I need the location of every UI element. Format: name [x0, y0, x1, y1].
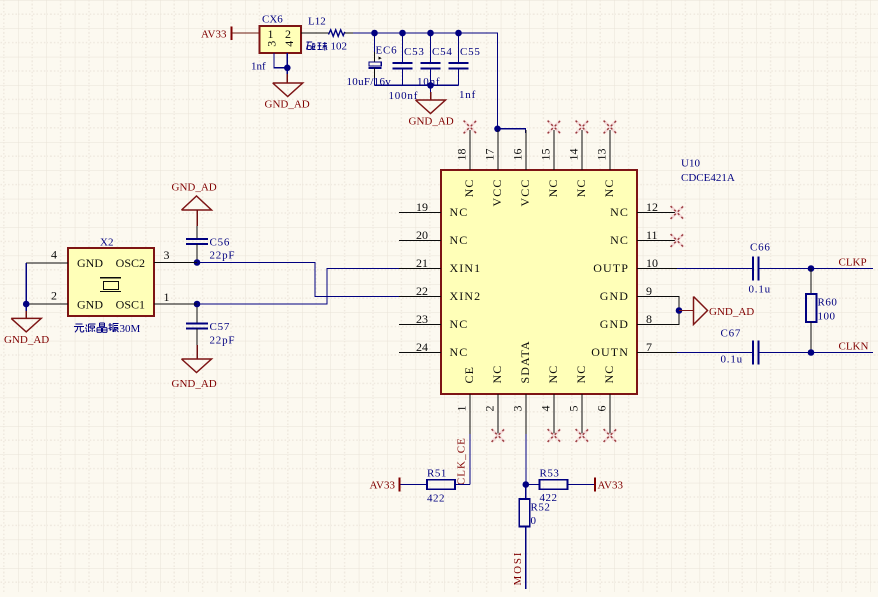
wire AV33 to R51: [400, 484, 428, 486]
svg-text:1: 1: [268, 27, 274, 41]
svg-text:NC: NC: [450, 317, 469, 331]
capacitor C55: [449, 33, 481, 101]
svg-text:AV33: AV33: [201, 29, 227, 41]
svg-text:1nf: 1nf: [251, 61, 266, 73]
svg-text:19: 19: [416, 200, 428, 214]
wire power rail L12 to corner: [345, 32, 353, 34]
pin 4 NC (bottom): [539, 365, 561, 434]
pin 14 NC (top): [566, 130, 588, 197]
svg-text:NC: NC: [610, 233, 629, 247]
svg-text:GND: GND: [77, 256, 103, 270]
pin 8 GND (right): [600, 312, 677, 331]
net label CLKP: [839, 256, 867, 268]
X2 value 无源晶振30M: [74, 323, 141, 335]
net label CLK_CE: [456, 437, 468, 485]
pin 10 OUTP (right): [593, 256, 677, 275]
U10 designator: [681, 158, 700, 170]
svg-text:C53: C53: [404, 46, 425, 58]
pin 7 OUTN (right): [591, 340, 677, 359]
svg-text:4: 4: [51, 248, 57, 262]
pin 22 XIN2 (left): [399, 284, 481, 303]
svg-text:C55: C55: [460, 46, 481, 58]
svg-text:100: 100: [818, 311, 836, 323]
svg-text:OSC2: OSC2: [116, 256, 145, 270]
junction rail C53: [399, 30, 406, 37]
svg-text:22pF: 22pF: [210, 250, 236, 262]
wire down to ground: [430, 85, 432, 100]
svg-text:C56: C56: [210, 237, 231, 249]
resistor R51 422: [427, 468, 455, 505]
svg-text:17: 17: [482, 149, 496, 161]
wire pins 9-8 tie: [677, 297, 679, 325]
svg-text:CLKP: CLKP: [839, 256, 867, 268]
svg-text:8: 8: [646, 312, 652, 326]
svg-text:102: 102: [331, 41, 348, 53]
pin 20 NC (left): [399, 228, 468, 247]
capacitor C57 22pF: [186, 304, 235, 359]
wire CX6 pin3 to junction: [274, 53, 287, 68]
svg-text:R60: R60: [818, 297, 838, 309]
net label CLKN: [839, 340, 869, 352]
svg-text:VCC: VCC: [518, 179, 532, 207]
svg-text:1nf: 1nf: [459, 89, 476, 101]
svg-text:22pF: 22pF: [210, 335, 236, 347]
junction below CX6: [284, 65, 291, 72]
svg-text:NC: NC: [574, 365, 588, 384]
power port AV33 (R53): [595, 478, 623, 492]
svg-text:2: 2: [51, 289, 57, 303]
svg-text:12: 12: [646, 200, 658, 214]
svg-text:OUTN: OUTN: [591, 345, 629, 359]
svg-text:GND: GND: [600, 289, 629, 303]
X2 label OSC2 (pin3): [116, 256, 145, 270]
ground GND_AD left of X2: [4, 318, 49, 346]
svg-text:NC: NC: [602, 365, 616, 384]
svg-text:10: 10: [646, 256, 658, 270]
svg-text:R53: R53: [540, 468, 560, 480]
wire OUTP to C66: [677, 268, 753, 270]
svg-text:NC: NC: [574, 179, 588, 198]
svg-text:U10: U10: [681, 158, 700, 170]
op-amp U10 CDCE421A body: [441, 170, 637, 394]
junction ground rail: [427, 82, 434, 89]
wire gnd to C56: [196, 210, 198, 239]
svg-text:15: 15: [538, 149, 552, 161]
capacitor C53: [389, 33, 425, 102]
pin 13 NC (top): [594, 130, 616, 197]
X2 label GND (pin4): [77, 256, 103, 270]
no-ERC marker bottom pin at x=610: [604, 429, 617, 442]
svg-text:3: 3: [511, 406, 525, 412]
wire junction to R53: [526, 484, 540, 486]
pin 18 NC (top): [454, 130, 476, 197]
svg-text:C54: C54: [432, 46, 453, 58]
svg-text:NC: NC: [450, 345, 469, 359]
svg-text:7: 7: [646, 340, 652, 354]
crystal symbol inside X2: [100, 278, 121, 292]
pin 6 NC (bottom): [595, 365, 617, 434]
svg-text:3: 3: [164, 248, 170, 262]
pin 19 NC (left): [399, 200, 468, 219]
wire OUTN to C67: [677, 352, 753, 354]
svg-text:NC: NC: [546, 179, 560, 198]
svg-text:AV33: AV33: [598, 480, 624, 492]
wire C66 to CLKP node: [759, 268, 812, 270]
svg-text:NC: NC: [450, 205, 469, 219]
pin 21 XIN1 (left): [399, 256, 481, 275]
svg-text:1: 1: [455, 406, 469, 412]
svg-text:VCC: VCC: [490, 179, 504, 207]
wire pin17 to pin16: [498, 129, 526, 133]
capacitor C66 0.1u: [749, 242, 771, 296]
X2 designator: [100, 237, 113, 249]
svg-text:CE: CE: [462, 366, 476, 384]
svg-text:C66: C66: [750, 242, 771, 254]
svg-text:13: 13: [594, 149, 608, 161]
svg-text:422: 422: [427, 493, 445, 505]
wire CX6 to L12: [301, 32, 329, 34]
wire ground rail below caps: [375, 84, 459, 86]
svg-text:100nf: 100nf: [389, 90, 419, 102]
ground GND_AD above C56: [172, 182, 217, 211]
svg-text:24: 24: [416, 340, 428, 354]
wire OSC2 to XIN2 (crossover): [197, 263, 399, 297]
svg-text:4: 4: [282, 41, 296, 47]
wire junction to ground: [286, 68, 288, 83]
junction CLKP/R60: [808, 265, 815, 272]
inductor L12 (ferrite bead 102): [307, 16, 348, 53]
junction rail C54: [427, 30, 434, 37]
svg-text:GND: GND: [77, 298, 103, 312]
no-ERC marker bottom pin at x=554: [548, 429, 561, 442]
svg-text:NC: NC: [490, 365, 504, 384]
capacitor C56 22pF: [186, 237, 235, 263]
junction CLKN/R60: [808, 349, 815, 356]
svg-text:16: 16: [510, 149, 524, 161]
pin 11 NC (right): [610, 228, 677, 247]
wire junction to R52: [525, 485, 527, 500]
wire CLKN: [811, 352, 873, 354]
wire CX6 pin4 down: [286, 53, 288, 68]
pin 12 NC (right): [610, 200, 677, 219]
svg-text:23: 23: [416, 312, 428, 326]
crystal X2 body: [68, 248, 154, 316]
svg-text:21: 21: [416, 256, 428, 270]
resistor R53 422: [540, 468, 568, 505]
svg-text:L12: L12: [308, 16, 326, 28]
ground GND_AD below C57: [172, 359, 217, 390]
ground GND_AD below CX6: [265, 83, 310, 111]
pin 3 SDATA (bottom): [511, 340, 533, 434]
net label MOSI: [512, 551, 524, 586]
svg-text:NC: NC: [462, 179, 476, 198]
svg-text:1: 1: [164, 290, 170, 304]
svg-text:0.1u: 0.1u: [721, 354, 743, 366]
svg-text:14: 14: [566, 149, 580, 161]
svg-text:NC: NC: [450, 233, 469, 247]
svg-text:5: 5: [567, 406, 581, 412]
svg-text:CX6: CX6: [262, 14, 283, 26]
U10 part number CDCE421A: [681, 172, 735, 184]
capacitor C54: [417, 33, 453, 88]
wire CE down: [469, 434, 471, 485]
pin 4 of X2: [26, 248, 68, 264]
svg-text:9: 9: [646, 284, 652, 298]
power port AV33 (top left): [201, 27, 232, 41]
svg-text:OUTP: OUTP: [593, 261, 629, 275]
junction rail C55: [455, 30, 462, 37]
svg-text:20: 20: [416, 228, 428, 242]
svg-text:GND_AD: GND_AD: [265, 99, 310, 111]
svg-text:30M: 30M: [120, 323, 141, 335]
svg-text:GND_AD: GND_AD: [172, 182, 217, 194]
junction OSC1/C57: [194, 301, 201, 308]
svg-text:R51: R51: [427, 468, 447, 480]
svg-text:CLK_CE: CLK_CE: [456, 437, 468, 485]
pin 3 of X2: [154, 248, 197, 263]
resistor R52 0: [519, 499, 550, 527]
no-ERC marker right pin at y=240.5: [671, 234, 684, 247]
no-ERC marker top pin at x=582: [576, 121, 589, 134]
wire AV33 to CX6: [232, 32, 260, 34]
svg-text:10uF/16v: 10uF/16v: [347, 76, 392, 88]
pin 1 of X2: [154, 290, 197, 304]
pin 5 NC (bottom): [567, 365, 589, 434]
svg-text:2: 2: [483, 406, 497, 412]
svg-text:MOSI: MOSI: [512, 551, 524, 586]
wire R53 to AV33: [568, 484, 596, 486]
svg-text:22: 22: [416, 284, 428, 298]
junction left of X2: [23, 301, 30, 308]
junction pins 9-8: [676, 307, 683, 314]
X2 label GND (pin2): [77, 298, 103, 312]
pin 24 NC (left): [399, 340, 468, 359]
wire rail corner down to pin17 junction: [353, 33, 498, 129]
svg-text:GND_AD: GND_AD: [172, 378, 217, 390]
svg-text:4: 4: [539, 406, 553, 412]
wire CLKP: [811, 268, 873, 270]
resistor R60 100: [806, 269, 837, 353]
svg-text:X2: X2: [100, 237, 113, 249]
svg-text:NC: NC: [546, 365, 560, 384]
wire SDATA down: [525, 434, 527, 485]
svg-text:OSC1: OSC1: [116, 298, 145, 312]
pin 2 of X2: [26, 289, 68, 305]
svg-text:6: 6: [595, 406, 609, 412]
pin 16 VCC (top): [510, 130, 532, 206]
no-ERC marker right pin at y=212.5: [671, 206, 684, 219]
svg-text:GND: GND: [600, 317, 629, 331]
svg-text:AV33: AV33: [370, 480, 396, 492]
no-ERC marker top pin at x=554: [548, 121, 561, 134]
svg-text:NC: NC: [610, 205, 629, 219]
pin 23 NC (left): [399, 312, 468, 331]
capacitor EC6 10uF/16v (electrolytic): [347, 33, 398, 88]
junction at pin 17: [494, 126, 501, 133]
svg-text:R52: R52: [531, 502, 551, 514]
ground GND_AD below caps: [409, 100, 454, 128]
svg-text:SDATA: SDATA: [518, 340, 532, 383]
power port AV33 (R51): [370, 478, 400, 492]
svg-text:C57: C57: [210, 321, 231, 333]
svg-text:CLKN: CLKN: [839, 340, 869, 352]
svg-text:GND_AD: GND_AD: [409, 116, 454, 128]
junction rail EC6: [371, 30, 378, 37]
capacitor C67 0.1u: [721, 328, 759, 366]
wire OSC1 to XIN1 (crossover): [197, 269, 399, 305]
no-ERC marker bottom pin at x=582: [576, 429, 589, 442]
svg-text:2: 2: [285, 27, 291, 41]
no-ERC marker top pin at x=470: [464, 121, 477, 134]
pin 1 CE (bottom): [455, 366, 477, 434]
junction OSC2/C56: [194, 259, 201, 266]
svg-text:0.1u: 0.1u: [749, 284, 771, 296]
no-ERC marker top pin at x=610: [604, 121, 617, 134]
wire CE to R51: [455, 484, 470, 486]
no-ERC marker bottom pin at x=498: [492, 429, 505, 442]
pin 17 VCC (top): [482, 130, 504, 206]
wire to ground left: [25, 304, 27, 318]
wire C67 to CLKN node: [759, 352, 812, 354]
ground GND_AD right of chip: [694, 297, 755, 325]
X2 label OSC1 (pin1): [116, 298, 145, 312]
svg-text:NC: NC: [602, 179, 616, 198]
svg-text:GND_AD: GND_AD: [709, 306, 754, 318]
wire pin4 to pin2 (left): [25, 263, 27, 304]
svg-text:C67: C67: [721, 328, 742, 340]
svg-text:3: 3: [264, 41, 278, 47]
svg-text:GND_AD: GND_AD: [4, 334, 49, 346]
svg-text:XIN2: XIN2: [450, 289, 482, 303]
svg-text:18: 18: [454, 149, 468, 161]
svg-text:XIN1: XIN1: [450, 261, 482, 275]
svg-text:EC6: EC6: [376, 45, 398, 57]
wire junction to GND_AD (right): [679, 310, 694, 312]
svg-text:0: 0: [531, 515, 537, 527]
pin 9 GND (right): [600, 284, 677, 303]
pin 2 NC (bottom): [483, 365, 505, 434]
junction SDATA/R53: [523, 481, 530, 488]
svg-text:CDCE421A: CDCE421A: [681, 172, 735, 184]
wire R52 to MOSI: [525, 527, 527, 590]
capacitor CX6 (feedthrough, 1nf): [251, 14, 301, 73]
svg-text:11: 11: [646, 228, 658, 242]
pin 15 NC (top): [538, 130, 560, 197]
